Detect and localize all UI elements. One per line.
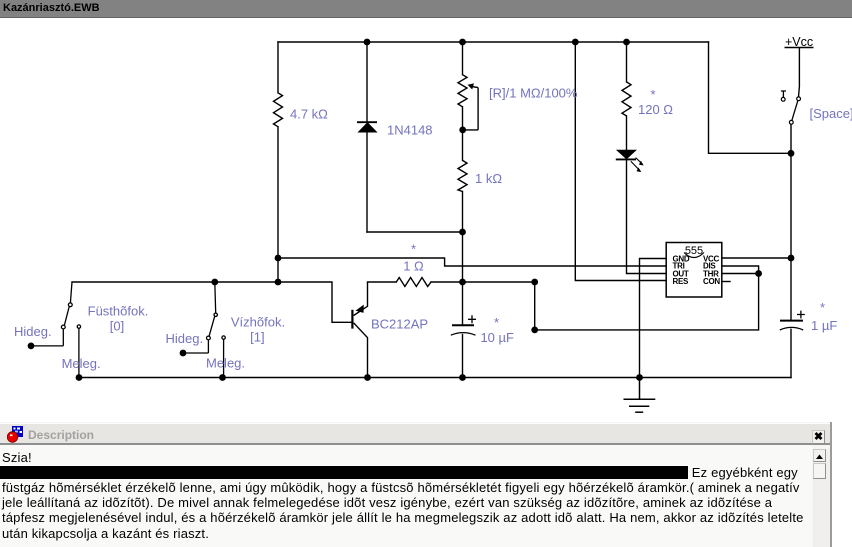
wire TRI net with jog <box>278 258 666 266</box>
close button <box>812 430 825 444</box>
wire left branch vertical (4.7k) <box>277 42 279 282</box>
svg-text:[Space]: [Space] <box>810 106 852 121</box>
resistor R4 1 ohm zigzag horizontal <box>396 278 431 287</box>
svg-text:Meleg.: Meleg. <box>206 356 245 371</box>
svg-text:RES: RES <box>673 277 690 286</box>
svg-text:*: * <box>820 300 825 315</box>
description panel <box>0 422 832 547</box>
svg-text:4.7 kΩ: 4.7 kΩ <box>290 107 328 122</box>
wire switch node down to VCC pin and cap <box>790 124 792 377</box>
svg-text:1 Ω: 1 Ω <box>403 258 424 273</box>
svg-text:Meleg.: Meleg. <box>62 356 101 371</box>
wire 555 DIS pin <box>722 266 759 274</box>
window title bar <box>0 0 852 18</box>
wire switches top rail to transistor base <box>72 282 352 322</box>
switch S1 Fusthofok SPDT <box>31 282 81 378</box>
resistor R3 120 ohm zigzag <box>622 82 631 116</box>
wire 555 GND to ground rail <box>640 259 667 378</box>
svg-text:1 µF: 1 µF <box>811 318 837 333</box>
svg-text:BC212AP: BC212AP <box>371 317 428 332</box>
wire diode branch vertical <box>366 42 368 232</box>
switch S3 [Space] SPDT <box>781 91 801 124</box>
svg-text:[R]/1 MΩ/100%: [R]/1 MΩ/100% <box>489 86 578 101</box>
description icon <box>7 426 24 443</box>
svg-text:*: * <box>650 87 655 102</box>
svg-text:1N4148: 1N4148 <box>387 123 433 138</box>
wire 555 CON stub <box>722 281 730 283</box>
wire THR/DIS link down and left <box>535 274 759 330</box>
potentiometer R zigzag <box>458 75 467 107</box>
svg-text:Vízhõfok.: Vízhõfok. <box>231 315 285 330</box>
wire 555 VCC pin <box>722 257 791 259</box>
wire LED branch vertical <box>627 42 667 274</box>
wire top rail right elbow to switch node <box>709 42 792 153</box>
svg-text:*: * <box>494 315 499 330</box>
transistor Q1 BC212AP <box>352 282 367 378</box>
svg-text:*: * <box>411 241 416 256</box>
svg-text:[1]: [1] <box>250 330 264 345</box>
switch S2 Vizhofok SPDT <box>183 282 225 378</box>
svg-text:CON: CON <box>703 277 720 286</box>
capacitor C1 10uF polarized <box>451 315 476 335</box>
svg-text:10 µF: 10 µF <box>480 330 514 345</box>
resistor R1 4.7k zigzag <box>274 93 283 127</box>
svg-text:120 Ω: 120 Ω <box>638 102 673 117</box>
svg-text:[0]: [0] <box>110 318 124 333</box>
wire top Vcc rail <box>278 41 709 43</box>
wire RES branch vertical <box>575 42 666 281</box>
wire diode bottom horizontal <box>367 231 463 233</box>
LED D2 <box>616 150 644 172</box>
capacitor C2 1uF polarized <box>780 311 805 330</box>
potentiometer wiper arrow and link <box>463 87 478 130</box>
scrollbar <box>813 449 830 547</box>
diode D1 1N4148 <box>357 122 377 132</box>
svg-text:Füsthõfok.: Füsthõfok. <box>88 304 149 319</box>
svg-text:Hideg.: Hideg. <box>14 324 52 339</box>
resistor R2 1k zigzag <box>458 160 467 191</box>
wire bottom ground rail <box>79 377 791 379</box>
wire emitter / 1 ohm node row <box>368 281 535 283</box>
wire pot branch vertical <box>462 42 464 378</box>
ground symbol <box>624 378 656 413</box>
svg-text:1 kΩ: 1 kΩ <box>475 171 502 186</box>
power +Vcc symbol <box>785 35 814 97</box>
IC U1 555 timer box <box>666 243 722 298</box>
svg-text:Hideg.: Hideg. <box>166 331 204 346</box>
wire 555 THR pin <box>722 273 759 275</box>
